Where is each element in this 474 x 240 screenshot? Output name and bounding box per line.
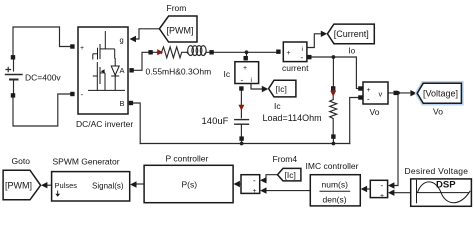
svg-text:[Ic]: [Ic] (276, 84, 287, 94)
svg-text:-: - (253, 176, 256, 185)
svg-text:[PWM]: [PWM] (167, 26, 194, 36)
svg-text:[Ic]: [Ic] (285, 170, 296, 180)
svg-text:[PWM]: [PWM] (5, 181, 32, 191)
svg-text:+: + (380, 193, 384, 200)
svg-text:+: + (367, 87, 371, 94)
svg-text:Vo: Vo (433, 107, 443, 117)
svg-text:[Voltage]: [Voltage] (423, 89, 458, 99)
svg-text:0.55mH&0.3Ohm: 0.55mH&0.3Ohm (146, 67, 212, 77)
svg-text:v: v (379, 90, 383, 99)
svg-text:Ic: Ic (224, 69, 231, 79)
svg-text:g: g (120, 36, 124, 45)
svg-text:+: + (80, 45, 84, 52)
svg-text:-: - (381, 181, 384, 190)
svg-text:B: B (120, 99, 125, 108)
svg-text:Io: Io (349, 47, 356, 56)
svg-text:-: - (367, 95, 370, 104)
svg-text:-: - (301, 53, 304, 62)
svg-text:140uF: 140uF (202, 116, 229, 127)
svg-text:i: i (251, 77, 252, 84)
svg-text:-: - (81, 90, 84, 99)
svg-text:num(s): num(s) (322, 180, 349, 190)
svg-text:DC/AC inverter: DC/AC inverter (76, 119, 133, 129)
svg-text:Ic: Ic (274, 101, 281, 111)
svg-text:P(s): P(s) (182, 180, 198, 190)
svg-text:current: current (282, 63, 309, 73)
svg-text:Signal(s): Signal(s) (92, 182, 124, 191)
svg-text:i: i (302, 46, 303, 53)
svg-text:Goto: Goto (12, 156, 31, 166)
svg-text:+: + (287, 50, 291, 57)
svg-text:From: From (167, 3, 187, 13)
svg-text:SPWM Generator: SPWM Generator (53, 157, 120, 167)
svg-text:den(s): den(s) (323, 195, 347, 205)
svg-text:IMC controller: IMC controller (306, 161, 359, 171)
svg-text:A: A (120, 66, 125, 75)
svg-text:Load=114Ohm: Load=114Ohm (263, 113, 322, 123)
svg-text:+: + (253, 188, 257, 195)
svg-text:Vo: Vo (370, 107, 380, 117)
svg-text:Pulses: Pulses (55, 181, 78, 190)
svg-text:DC=400v: DC=400v (25, 73, 61, 83)
svg-text:From4: From4 (273, 154, 298, 164)
svg-text:[Current]: [Current] (334, 29, 369, 39)
svg-text:DSP: DSP (436, 180, 456, 191)
svg-text:P controller: P controller (166, 154, 209, 164)
svg-text:-: - (241, 76, 244, 85)
svg-text:+: + (243, 65, 247, 72)
svg-text:Desired Voltage: Desired Voltage (405, 166, 469, 176)
